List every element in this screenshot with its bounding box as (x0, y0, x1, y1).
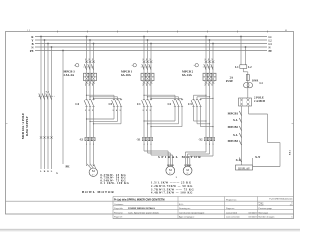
2 pole 2A MCB (239, 98, 252, 106)
label C3 (188, 102, 192, 106)
svg-text:-X1: -X1 (79, 139, 84, 142)
svg-text:X-L: X-L (233, 118, 238, 122)
label MCB 63A / 4 POLE RAW SUPPLY (21, 113, 29, 139)
wire C4 outputs down (87, 106, 94, 138)
MPCB3 terminal numbers 2 4 6 (85, 85, 93, 87)
contactor C1 (142, 99, 153, 106)
svg-text:2: 2 (85, 85, 86, 87)
wires X1 to bowl motor (87, 141, 96, 169)
contactor C5 (112, 99, 123, 106)
aux contact X-L 3 (239, 158, 241, 163)
label X-L 3 (236, 158, 241, 162)
wire transformer to 2A MCB (247, 88, 249, 98)
bowl motor M 3~ (89, 168, 97, 177)
MPCB 2 8A-14A (203, 61, 216, 84)
svg-text:2: 2 (176, 177, 177, 179)
svg-text:SPIRAL MOTOR: SPIRAL MOTOR (158, 155, 202, 159)
wire C3 outputs loop back to branch 3 (194, 106, 214, 127)
svg-text:2: 2 (142, 85, 143, 87)
branch 1 phase wires from buses to MPCB3 (86, 36, 95, 74)
svg-text:POWER WIRING DETAILS: POWER WIRING DETAILS (128, 207, 155, 210)
svg-text:MPCB3: MPCB3 (228, 139, 239, 143)
svg-text:M: M (186, 168, 189, 172)
svg-text:BOWL MOTOR: BOWL MOTOR (82, 190, 115, 194)
svg-text:C3: C3 (188, 102, 192, 106)
label MPCB2 (228, 125, 239, 129)
MPCB 1 6A-10A (141, 61, 154, 84)
terminal strip X1 1 2 3 (85, 138, 95, 141)
bus Y (L2) (35, 39, 267, 41)
aux contact MPCB1 (239, 111, 241, 116)
label C4 (75, 102, 79, 106)
spiral motor coupling mark (176, 177, 177, 179)
svg-text:3: 3 (92, 110, 93, 112)
wire C2 outputs loop back to branch 2 (143, 106, 182, 127)
bus N (35, 46, 267, 48)
svg-text:Last printed: Last printed (226, 211, 238, 214)
svg-text:1: 1 (112, 110, 113, 112)
label -X2 (198, 139, 203, 142)
svg-text:Page title:: Page title: (114, 207, 124, 210)
svg-text:C4: C4 (75, 102, 79, 106)
svg-text:L1: L1 (235, 65, 239, 69)
label C5 (109, 102, 113, 106)
terminal strip X1 4 5 6 (142, 138, 152, 141)
svg-text:DISPLAY: DISPLAY (238, 166, 251, 170)
MPCB1 terminal numbers 1 3 5 (142, 59, 150, 61)
fuse 2A (246, 75, 249, 81)
svg-text:2 A MCB: 2 A MCB (254, 100, 265, 103)
title block row 4 (114, 211, 269, 214)
aux contact MPCB2 (239, 126, 241, 131)
svg-text:Page no.:: Page no.: (226, 208, 235, 210)
label MPCB3 (228, 139, 239, 143)
contactor C2 (173, 99, 184, 106)
MPCB2 terminal numbers 1 3 5 (204, 59, 212, 61)
MCB 63A 4 pole switch on supply (39, 94, 55, 100)
wires X2 to spiral motor winding 2 (185, 141, 213, 167)
svg-text:4.4KW/7.5KW — 100 KG: 4.4KW/7.5KW — 100 KG (151, 192, 193, 195)
aux contact MPCB3 (239, 141, 241, 146)
svg-text:4: 4 (88, 85, 89, 87)
label C1 (137, 102, 141, 106)
svg-text:1: 1 (85, 110, 86, 112)
label -X1 (79, 139, 84, 142)
label MPCB1 (228, 111, 239, 115)
wire C5 outputs loop back to branch 1 (86, 106, 121, 125)
X1 numbers 1 2 3 (86, 144, 94, 146)
wire MPCB3 to contactors (87, 81, 94, 101)
svg-text:1/1/2023: 1/1/2023 (248, 217, 257, 219)
svg-text:-X1: -X1 (136, 139, 141, 142)
svg-text:MPCB2: MPCB2 (228, 125, 239, 129)
C4 terminal numbers (85, 110, 93, 112)
svg-text:M: M (92, 169, 95, 173)
svg-text:RAW SUPPLY: RAW SUPPLY (25, 115, 29, 135)
wire C1 outputs down (144, 106, 151, 138)
svg-text:2: 2 (204, 85, 205, 87)
scan shadow bottom edge (0, 229, 300, 232)
label L1 secondary (260, 82, 264, 85)
wires X1 to spiral motor winding 1 (144, 141, 173, 167)
title block header row (114, 198, 293, 202)
branch 3 phase wires from buses to MPCB2 (205, 36, 214, 74)
branch to contactor C2 (143, 95, 182, 101)
svg-text:Construction (project/page):: Construction (project/page): (179, 211, 205, 214)
label 2 POLE 2A MCB (254, 97, 265, 103)
svg-text:X-L: X-L (233, 133, 238, 137)
svg-text:2: 2 (88, 110, 89, 112)
MPCB2 terminal numbers 2 4 6 (204, 85, 212, 87)
MPCB3 terminal numbers 1 3 5 (85, 59, 93, 61)
spiral motor power ratings (151, 182, 195, 195)
svg-text:L2: L2 (248, 65, 252, 69)
wire MPCB2 down (206, 81, 213, 138)
bowl motor terminals U V W (86, 165, 95, 167)
svg-text:1: 1 (142, 110, 143, 112)
spiral motor winding2 terminals U2 V2 W2 (184, 165, 191, 167)
control tap wires L1 L2 (240, 36, 246, 65)
svg-text:PE: PE (30, 49, 34, 53)
svg-text:Last correction: Last correction (226, 216, 240, 219)
right edge terminal label (289, 149, 292, 155)
svg-text:4: 4 (208, 85, 209, 87)
svg-text:8A-14A: 8A-14A (182, 73, 193, 77)
svg-text:0.1 1KW- 100 KG: 0.1 1KW- 100 KG (101, 182, 130, 185)
bus labels left (30, 35, 35, 53)
svg-text:X-L: X-L (236, 158, 241, 162)
incoming supply wires L1 L2 L3 N (40, 36, 52, 169)
svg-text:6: 6 (92, 85, 93, 87)
label SPIRAL MOTOR (158, 155, 202, 159)
transformer 10VA (244, 81, 253, 88)
svg-text:Filename:: Filename: (114, 212, 124, 214)
svg-text:FUSE: FUSE (226, 80, 233, 83)
bus B (L3) (35, 43, 267, 45)
svg-text:C5: C5 (109, 102, 113, 106)
MPCB1 terminal numbers 2 4 6 (142, 85, 150, 87)
svg-text:-X2: -X2 (198, 139, 203, 142)
bus labels right (269, 36, 273, 53)
X2 numbers 7 8 9 (205, 144, 213, 146)
title block row 5 (114, 216, 293, 219)
spiral motor M1 circle winding1 (166, 166, 175, 175)
svg-text:2: 2 (146, 110, 147, 112)
terminal strip X2 7 8 9 (204, 138, 214, 141)
X-N stub wire (252, 158, 254, 165)
control isolator box (240, 65, 247, 69)
title block (6, 197, 294, 219)
neutral return wire (249, 106, 281, 167)
svg-text:M: M (285, 30, 287, 32)
svg-text:4: 4 (116, 110, 117, 112)
svg-text:PE: PE (269, 50, 273, 53)
MPCB 3 2.5A-4A (83, 61, 96, 84)
svg-text:P.E 1: P.E 1 (289, 149, 292, 155)
branch 2 phase wires from buses to MPCB1 (143, 36, 152, 74)
label X-L 2 (233, 133, 238, 137)
label C2 (168, 102, 172, 106)
spiral motor M2 circle winding2 (183, 166, 192, 175)
svg-text:-A.1: -A.1 (45, 91, 49, 94)
svg-text:M: M (169, 168, 172, 172)
svg-text:PE: PE (66, 165, 70, 169)
label BOWL MOTOR (82, 190, 115, 194)
svg-text:MPCB1: MPCB1 (228, 111, 239, 115)
label -X1 (136, 139, 141, 142)
label 2A FUSE (226, 77, 233, 83)
svg-text:4: 4 (146, 85, 147, 87)
svg-text:Previous page: Previous page (259, 207, 273, 210)
svg-text:10VA: 10VA (252, 80, 258, 83)
X1 numbers 4 5 6 (143, 144, 151, 146)
PE wire drop (62, 50, 64, 164)
spiral motor winding1 terminals U1 V1 W1 (167, 165, 174, 167)
drawing frame border (6, 30, 294, 214)
C1 terminal numbers (142, 110, 150, 112)
C5 terminal numbers (112, 110, 120, 112)
svg-text:Page ref:: Page ref: (114, 216, 123, 219)
svg-text:Number of pages: Number of pages (259, 216, 275, 219)
aux contact X-L 2 (239, 133, 241, 138)
supply terminal clamps (40, 136, 53, 138)
wire isolator to fuse (243, 68, 248, 74)
svg-text:X-N: X-N (255, 155, 261, 159)
label 10VA (252, 80, 258, 83)
branch to contactor C3 (194, 95, 214, 101)
svg-text:3: 3 (149, 110, 150, 112)
svg-text:W: W (93, 165, 95, 167)
svg-text:Appr. (eng/app.):: Appr. (eng/app.): (179, 216, 195, 219)
label -A1 MCB (45, 91, 49, 94)
svg-text:2.5A-4A: 2.5A-4A (64, 73, 75, 77)
bus PE (35, 50, 267, 52)
svg-text:Scale: Scale (259, 204, 265, 206)
svg-text:1/1/2023: 1/1/2023 (248, 212, 257, 214)
aux contact X-L 1 (239, 118, 241, 123)
svg-text:Drawing no.:: Drawing no.: (179, 207, 191, 210)
svg-text:6A-10A: 6A-10A (121, 73, 132, 77)
label X-L (233, 118, 238, 122)
svg-text:P-24 CIRKITZ Automation: P-24 CIRKITZ Automation (269, 198, 292, 201)
display unit box (236, 165, 253, 170)
supply phase labels bottom (40, 171, 58, 175)
svg-text:C2: C2 (168, 102, 172, 106)
wire MPCB1 to contactor C1 (144, 81, 151, 101)
contactor C4 (84, 99, 95, 106)
svg-text:N: N (56, 172, 58, 175)
svg-text:C1: C1 (137, 102, 141, 106)
label X-N (255, 155, 261, 159)
svg-text:Com, Spiral mixer power detail: Com, Spiral mixer power details (128, 211, 160, 214)
branch to contactor C5 (86, 95, 121, 101)
bus R (L1) (35, 36, 267, 38)
label L1 (235, 65, 239, 69)
label L2 (248, 65, 252, 69)
svg-text:Next page: Next page (259, 211, 269, 214)
title block row 3 (114, 207, 273, 210)
svg-text:1: 1 (119, 110, 120, 112)
title block row 2 (114, 203, 293, 207)
svg-text:Project no.:: Project no.: (226, 198, 237, 201)
svg-text:B.O.:: B.O.: (179, 204, 184, 206)
contactor C3 (191, 99, 202, 106)
svg-text:Customer:: Customer: (114, 203, 124, 206)
svg-text:6: 6 (149, 85, 150, 87)
PE label (66, 165, 70, 169)
bowl motor power ratings (101, 174, 130, 185)
svg-text:6: 6 (211, 85, 212, 87)
svg-text:Pr (ja) title:SPIRAL MIXER CNR: Pr (ja) title:SPIRAL MIXER CNR GEN/TETM (114, 198, 165, 201)
control chain wire (241, 106, 243, 165)
